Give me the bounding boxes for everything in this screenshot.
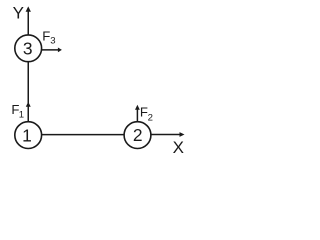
svg-text:2: 2 bbox=[148, 113, 153, 124]
svg-text:1: 1 bbox=[22, 125, 32, 145]
svg-text:3: 3 bbox=[50, 36, 55, 47]
svg-text:X: X bbox=[173, 138, 184, 156]
svg-text:Y: Y bbox=[13, 3, 24, 22]
svg-text:3: 3 bbox=[23, 38, 33, 58]
svg-text:F: F bbox=[42, 28, 50, 43]
svg-text:2: 2 bbox=[133, 125, 143, 145]
svg-text:1: 1 bbox=[19, 109, 24, 120]
